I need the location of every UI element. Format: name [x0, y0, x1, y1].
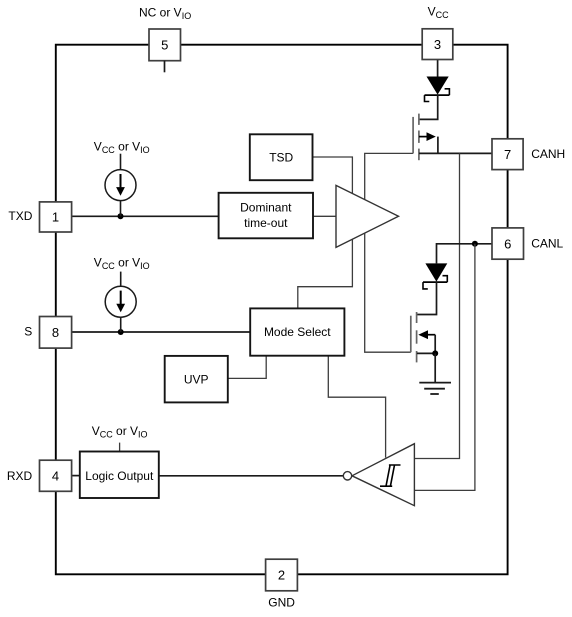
Logic Output supply stub	[119, 443, 121, 452]
receiver output bubble	[343, 472, 351, 480]
block TSD	[250, 134, 313, 180]
svg-text:4: 4	[52, 469, 59, 484]
svg-text:UVP: UVP	[184, 372, 209, 386]
block Dominant time-out	[219, 193, 313, 239]
wire Dominant time-out to driver input	[313, 215, 336, 217]
transistor Q1 (high-side MOSFET)	[413, 114, 438, 161]
svg-text:CANH: CANH	[531, 147, 565, 161]
block Logic Output	[80, 452, 159, 499]
wire RXD pin4 to Logic Output	[72, 475, 80, 477]
svg-text:GND: GND	[268, 596, 295, 610]
current source I1 stub	[120, 154, 122, 170]
svg-text:time-out: time-out	[244, 216, 288, 230]
block Mode Select	[250, 308, 344, 355]
svg-text:1: 1	[52, 210, 59, 225]
wire Logic Output to receiver bubble	[159, 475, 343, 477]
svg-text:TSD: TSD	[269, 151, 293, 165]
receiver hysteresis symbol	[380, 465, 401, 486]
svg-text:S: S	[24, 325, 32, 339]
node CANL junction dot	[472, 241, 478, 247]
svg-text:CANL: CANL	[531, 237, 563, 251]
wire CANL sense to receiver	[414, 244, 475, 491]
wire D1 to Q1 drain	[419, 95, 438, 119]
svg-text:RXD: RXD	[7, 469, 33, 483]
svg-text:Mode Select: Mode Select	[264, 325, 331, 339]
wire TSD to Mode Select and driver	[298, 157, 353, 308]
svg-text:Logic Output: Logic Output	[85, 469, 154, 483]
block UVP	[165, 356, 228, 403]
diode D1 (schottky)	[425, 77, 450, 102]
wire UVP to Mode Select	[228, 356, 266, 379]
pin 8 box	[40, 317, 72, 349]
IC boundary rectangle	[56, 45, 508, 575]
current source I2	[105, 286, 136, 332]
svg-text:7: 7	[504, 147, 511, 162]
pin 5 box	[149, 29, 181, 61]
wire Q1 to CANH pin7	[419, 152, 492, 154]
pin 1 box	[40, 202, 72, 232]
pin 2 box	[266, 559, 298, 591]
svg-text:3: 3	[434, 37, 441, 52]
wire pin3 to diode D1	[437, 60, 439, 77]
svg-text:5: 5	[161, 38, 168, 53]
wire D2 to Q2 drain	[417, 282, 437, 314]
node TXD junction dot	[118, 213, 124, 219]
wire CANL pin6 to D2	[437, 244, 493, 264]
svg-text:6: 6	[504, 236, 511, 251]
pin 6 box	[492, 228, 524, 259]
wire gate drive: driver to upper and lower MOSFET gates	[365, 153, 413, 352]
wire Mode Select to receiver enable	[328, 356, 385, 458]
wire TXD pin1 to Dominant time-out	[72, 215, 219, 217]
wire Q2 source to ground	[434, 353, 436, 382]
svg-text:8: 8	[52, 325, 59, 340]
svg-text:Dominant: Dominant	[240, 201, 292, 215]
pin 3 box	[422, 29, 453, 60]
driver op-amp triangle	[336, 185, 399, 247]
diode D2 (schottky)	[423, 263, 447, 289]
current source I2 stub	[120, 272, 122, 287]
wire S pin8 to Mode Select	[72, 331, 251, 333]
pin 5 stub	[164, 61, 166, 73]
svg-text:2: 2	[278, 568, 285, 583]
receiver op-amp triangle	[352, 444, 414, 506]
ground	[419, 383, 451, 394]
node S junction dot	[118, 329, 124, 335]
pin 4 box	[40, 460, 72, 491]
pin 7 box	[492, 139, 523, 170]
transistor Q2 (low-side MOSFET)	[411, 312, 435, 362]
svg-text:TXD: TXD	[8, 209, 32, 223]
node Q2 source junction dot	[432, 350, 438, 356]
current source I1	[105, 170, 136, 217]
wire CANH sense to receiver	[414, 153, 459, 458]
